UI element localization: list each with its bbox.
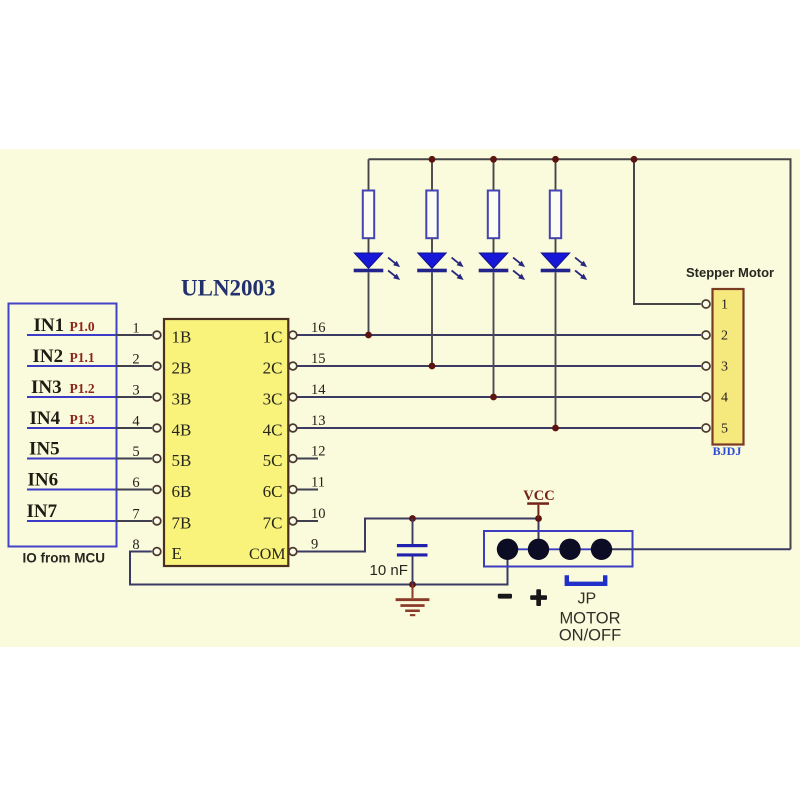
- svg-text:6: 6: [132, 475, 139, 491]
- svg-text:3C: 3C: [263, 390, 283, 409]
- svg-text:4: 4: [721, 391, 728, 406]
- svg-text:P1.1: P1.1: [70, 350, 95, 365]
- svg-text:1: 1: [721, 298, 728, 313]
- svg-text:7C: 7C: [263, 514, 283, 533]
- svg-text:10 nF: 10 nF: [370, 562, 408, 579]
- svg-text:5B: 5B: [172, 451, 192, 470]
- svg-text:ULN2003: ULN2003: [181, 276, 276, 301]
- svg-text:4: 4: [132, 414, 140, 430]
- svg-text:IN6: IN6: [28, 470, 59, 491]
- svg-text:IN5: IN5: [29, 439, 60, 460]
- svg-text:13: 13: [311, 413, 326, 429]
- svg-text:P1.3: P1.3: [70, 412, 95, 427]
- svg-text:E: E: [172, 544, 182, 563]
- svg-text:8: 8: [132, 537, 139, 553]
- svg-text:IN7: IN7: [27, 501, 58, 522]
- svg-text:1C: 1C: [263, 328, 283, 347]
- svg-text:P1.0: P1.0: [70, 319, 95, 334]
- svg-text:1B: 1B: [172, 328, 192, 347]
- svg-text:IN4: IN4: [30, 408, 61, 429]
- svg-text:5: 5: [721, 422, 728, 437]
- svg-text:6B: 6B: [172, 482, 192, 501]
- svg-text:5: 5: [132, 444, 139, 460]
- svg-text:7: 7: [132, 507, 139, 523]
- svg-text:15: 15: [311, 351, 326, 367]
- svg-text:P1.2: P1.2: [70, 381, 95, 396]
- svg-text:VCC: VCC: [523, 488, 554, 504]
- svg-text:3: 3: [132, 383, 139, 399]
- svg-text:2B: 2B: [172, 359, 192, 378]
- svg-text:16: 16: [311, 320, 326, 336]
- svg-text:4C: 4C: [263, 421, 283, 440]
- svg-text:10: 10: [311, 506, 326, 522]
- svg-text:IO from MCU: IO from MCU: [23, 551, 106, 566]
- svg-text:4B: 4B: [172, 421, 192, 440]
- svg-text:12: 12: [311, 444, 326, 460]
- svg-text:3B: 3B: [172, 390, 192, 409]
- svg-text:6C: 6C: [263, 482, 283, 501]
- svg-text:COM: COM: [249, 546, 285, 563]
- svg-text:9: 9: [311, 537, 318, 553]
- svg-text:7B: 7B: [172, 514, 192, 533]
- svg-text:IN2: IN2: [33, 346, 64, 367]
- svg-text:2: 2: [721, 329, 728, 344]
- svg-text:1: 1: [132, 321, 139, 337]
- svg-text:IN3: IN3: [31, 377, 62, 398]
- svg-text:5C: 5C: [263, 451, 283, 470]
- svg-text:Stepper Motor: Stepper Motor: [686, 265, 774, 280]
- svg-text:ON/OFF: ON/OFF: [559, 627, 621, 645]
- svg-text:3: 3: [721, 360, 728, 375]
- svg-text:11: 11: [311, 475, 325, 491]
- svg-text:BJDJ: BJDJ: [713, 444, 742, 458]
- svg-text:2C: 2C: [263, 359, 283, 378]
- svg-text:JP: JP: [578, 591, 597, 608]
- svg-text:IN1: IN1: [34, 315, 65, 336]
- svg-text:MOTOR: MOTOR: [559, 610, 620, 628]
- svg-text:2: 2: [132, 352, 139, 368]
- svg-text:14: 14: [311, 382, 326, 398]
